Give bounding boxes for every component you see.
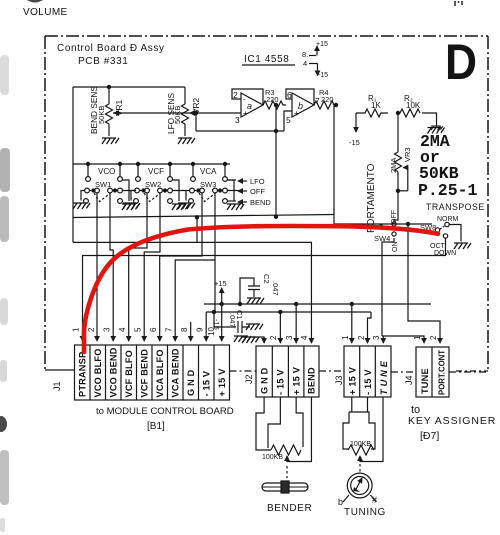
svg-text:100KB: 100KB	[262, 454, 283, 461]
svg-text:+: +	[243, 109, 248, 118]
svg-text:50KB: 50KB	[173, 106, 182, 124]
svg-text:a: a	[247, 101, 252, 111]
svg-text:+15: +15	[214, 279, 227, 288]
svg-text:- 15 V: - 15 V	[276, 369, 286, 395]
svg-text:LFO: LFO	[250, 177, 265, 186]
svg-text:8.: 8.	[302, 50, 308, 59]
svg-text:VCO BEND: VCO BEND	[109, 347, 119, 397]
svg-text:VCA BEND: VCA BEND	[171, 348, 181, 397]
svg-text:4: 4	[303, 59, 307, 68]
svg-text:J3: J3	[334, 375, 344, 385]
svg-text:2MA: 2MA	[389, 158, 398, 173]
svg-text:VR1: VR1	[114, 99, 124, 116]
svg-text:TUNING: TUNING	[344, 507, 386, 518]
svg-text:[Đ7]: [Đ7]	[420, 430, 439, 442]
svg-text:.047: .047	[228, 313, 237, 328]
svg-text:J1: J1	[52, 381, 62, 391]
svg-text:VCF BEND: VCF BEND	[140, 349, 150, 398]
svg-text:1: 1	[341, 335, 350, 340]
svg-text:J4: J4	[404, 375, 414, 385]
svg-text:220: 220	[321, 95, 334, 104]
svg-text:KEY ASSIGNER BOARD: KEY ASSIGNER BOARD	[408, 415, 500, 427]
svg-text:- 15 V: - 15 V	[202, 370, 212, 396]
svg-text:C2: C2	[262, 274, 271, 284]
svg-text:J2: J2	[244, 374, 254, 384]
svg-text:b: b	[298, 101, 303, 111]
svg-text:3: 3	[285, 335, 294, 340]
svg-text:6: 6	[287, 90, 292, 100]
svg-text:2: 2	[269, 335, 278, 340]
svg-text:P.25-1: P.25-1	[418, 181, 478, 200]
svg-text:9: 9	[196, 327, 205, 332]
svg-text:4: 4	[118, 327, 127, 332]
svg-text:ON: ON	[392, 242, 399, 253]
svg-text:2: 2	[233, 90, 238, 100]
svg-text:b: b	[338, 497, 343, 507]
svg-text:2: 2	[87, 327, 96, 332]
svg-text:OCT: OCT	[430, 243, 446, 250]
svg-text:-15: -15	[318, 72, 328, 79]
svg-text:PORT.CONT: PORT.CONT	[438, 350, 447, 395]
svg-text:VCO BLFO: VCO BLFO	[93, 348, 103, 397]
svg-text:+ 15 V: + 15 V	[348, 366, 358, 395]
svg-text:OFF: OFF	[250, 187, 265, 196]
svg-text:BEND: BEND	[250, 198, 271, 207]
svg-text:to MODULE CONTROL BOARD: to MODULE CONTROL BOARD	[96, 406, 234, 417]
svg-text:BENDER: BENDER	[267, 503, 312, 514]
svg-text:8: 8	[180, 327, 189, 332]
svg-text:VCF BLFO: VCF BLFO	[124, 350, 134, 398]
svg-text:TRANSPOSE: TRANSPOSE	[426, 202, 485, 212]
svg-text:1K: 1K	[371, 101, 381, 110]
svg-text:3: 3	[235, 115, 240, 125]
svg-text:VCF: VCF	[148, 167, 164, 176]
svg-text:-15: -15	[349, 138, 360, 147]
svg-text:100KB: 100KB	[350, 441, 371, 448]
svg-text:-: -	[243, 95, 246, 104]
svg-text:[B1]: [B1]	[147, 421, 165, 432]
svg-text:3: 3	[103, 327, 112, 332]
svg-text:5: 5	[286, 115, 291, 125]
svg-text:7: 7	[165, 327, 174, 332]
svg-text:+15: +15	[316, 41, 328, 48]
svg-text:VOLUME: VOLUME	[23, 7, 68, 18]
svg-text:VCA: VCA	[200, 167, 217, 176]
svg-text:2: 2	[429, 335, 438, 340]
svg-text:VCA BLFO: VCA BLFO	[155, 349, 165, 397]
svg-text:+: +	[294, 109, 299, 118]
svg-text:- 15 V: - 15 V	[363, 369, 373, 395]
svg-text:5: 5	[134, 327, 143, 332]
svg-text:50KB: 50KB	[97, 106, 106, 124]
svg-text:10K: 10K	[406, 101, 421, 110]
svg-text:+ 15 V: + 15 V	[292, 366, 302, 395]
svg-text:+ 15 V: + 15 V	[217, 368, 227, 397]
svg-text:PTRANSP: PTRANSP	[78, 352, 88, 397]
svg-text:G N D: G N D	[186, 369, 196, 396]
svg-text:220: 220	[266, 95, 279, 104]
svg-text:4: 4	[300, 335, 309, 340]
svg-text:D: D	[445, 34, 477, 90]
svg-text:IC1 4558: IC1 4558	[244, 54, 289, 65]
svg-text:1: 1	[413, 335, 422, 340]
svg-text:VR2: VR2	[191, 97, 201, 114]
svg-text:6: 6	[149, 327, 158, 332]
svg-text:VCO: VCO	[98, 167, 115, 176]
svg-text:10: 10	[207, 327, 216, 336]
svg-text:Control Board Đ Assy: Control Board Đ Assy	[57, 43, 165, 54]
svg-text:1: 1	[72, 327, 81, 332]
svg-text:BEND: BEND	[307, 367, 317, 394]
svg-text:3: 3	[372, 335, 381, 340]
svg-text:PCB #331: PCB #331	[78, 56, 128, 67]
svg-text:2: 2	[357, 335, 366, 340]
svg-text:TUNE: TUNE	[420, 368, 430, 394]
svg-text:.047: .047	[271, 281, 280, 296]
svg-text:T U N E: T U N E	[379, 360, 389, 395]
svg-text:G N D: G N D	[260, 367, 270, 394]
svg-text:PORTAMENTO: PORTAMENTO	[366, 163, 377, 233]
svg-text:#: #	[372, 495, 377, 505]
svg-text:VR3: VR3	[403, 147, 412, 162]
